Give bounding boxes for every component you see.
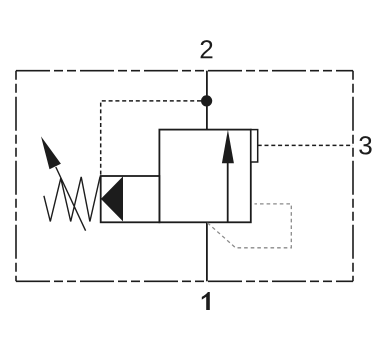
- pilot poppet triangle: [101, 176, 123, 221]
- node junction: [201, 95, 212, 106]
- enclosure dashed border left: [15, 71, 17, 282]
- wire port 3 dashed: [258, 144, 353, 146]
- enclosure dashed border bottom: [16, 280, 353, 282]
- pilot envelope: [101, 176, 160, 222]
- adjustment arrow: [56, 167, 86, 231]
- spring: [44, 177, 100, 222]
- enclosure dashed border right: [352, 71, 354, 282]
- enclosure dashed border top: [16, 70, 353, 72]
- wire pilot dashed L: [101, 101, 201, 176]
- wire port 2: [206, 71, 208, 130]
- tab port 3 stub: [251, 130, 258, 162]
- port label 1: [202, 292, 210, 310]
- port label 3: [359, 136, 371, 154]
- flow arrow up: [227, 160, 229, 222]
- wire drain dashed loop: [207, 204, 291, 248]
- wire port 1: [206, 222, 208, 281]
- port label 2: [201, 40, 213, 58]
- main valve envelope: [159, 130, 250, 223]
